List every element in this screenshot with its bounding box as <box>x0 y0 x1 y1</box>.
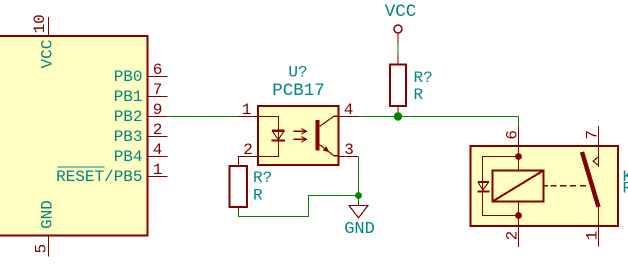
svg-text:VCC: VCC <box>385 2 417 22</box>
VCC power symbol <box>394 25 402 45</box>
relay K? body <box>471 146 619 226</box>
opto pin 1 <box>238 101 259 119</box>
opto LED branch wiring <box>258 117 279 157</box>
svg-text:2: 2 <box>243 141 253 159</box>
IC pin 1 RESET/PB5 <box>56 161 167 186</box>
IC pin 7 PB1 <box>114 81 168 106</box>
svg-text:R?: R? <box>414 69 433 87</box>
svg-text:1: 1 <box>153 161 163 179</box>
IC pin 2 PB3 <box>114 121 168 146</box>
resistor R? (left) top stub <box>238 157 240 166</box>
svg-text:PCB17: PCB17 <box>272 81 325 101</box>
junction GND node <box>355 192 362 199</box>
relay pin7 inner wire <box>598 146 600 167</box>
IC pin 5 GND (bottom) <box>33 200 57 256</box>
relay flyback branch <box>483 157 519 216</box>
opto U? body <box>258 106 339 165</box>
svg-text:6: 6 <box>153 61 163 79</box>
resistor R? (pullup) body <box>390 65 406 107</box>
svg-text:RELAY: RELAY <box>623 180 628 198</box>
svg-text:7: 7 <box>583 130 601 140</box>
IC pin 4 PB4 <box>114 141 168 166</box>
opto LED diode <box>272 131 286 141</box>
wire resistor to GND node <box>239 196 359 217</box>
svg-text:PB2: PB2 <box>114 108 143 126</box>
svg-text:5: 5 <box>33 244 51 254</box>
svg-text:GND: GND <box>344 220 375 239</box>
junction pullup node <box>394 112 402 120</box>
wire VCC to resistor <box>397 45 399 54</box>
relay pin1 inner wire <box>598 207 600 226</box>
opto pin 3 <box>339 141 359 159</box>
relay contact triangle <box>593 157 598 166</box>
relay flyback diode <box>477 182 489 191</box>
opto pin 4 <box>339 101 359 119</box>
svg-text:2: 2 <box>153 121 163 139</box>
IC pin 9 PB2 <box>114 101 168 126</box>
svg-text:6: 6 <box>503 130 521 140</box>
ground symbol <box>349 202 368 218</box>
svg-text:4: 4 <box>344 101 354 119</box>
opto coupling arrows <box>294 129 307 142</box>
svg-text:3: 3 <box>344 141 354 159</box>
IC pin 6 PB0 <box>114 61 168 86</box>
relay coil <box>493 170 544 201</box>
svg-text:1: 1 <box>242 101 252 119</box>
svg-text:U?: U? <box>288 64 307 82</box>
svg-text:R: R <box>414 86 424 104</box>
svg-text:VCC: VCC <box>39 40 57 69</box>
relay junction top <box>515 153 522 160</box>
svg-text:4: 4 <box>153 141 163 159</box>
relay K? pin 1 <box>583 226 601 247</box>
opto pin 2 <box>238 141 259 159</box>
IC body (microcontroller) <box>0 36 148 236</box>
svg-text:10: 10 <box>31 14 49 33</box>
svg-text:2: 2 <box>503 231 521 241</box>
svg-text:7: 7 <box>153 81 163 99</box>
wire corner down to relay <box>518 117 520 127</box>
resistor R? (pullup) bottom stub <box>397 106 399 116</box>
resistor R? (pullup) top stub <box>397 54 399 65</box>
resistor R? (left) bottom stub <box>238 207 240 212</box>
svg-text:R?: R? <box>253 169 272 187</box>
svg-text:R: R <box>253 187 263 205</box>
svg-text:1: 1 <box>583 231 601 241</box>
svg-text:PB3: PB3 <box>114 128 143 146</box>
relay junction bottom <box>515 212 522 219</box>
relay switch blade <box>582 152 599 207</box>
svg-text:GND: GND <box>39 200 57 229</box>
relay coil bottom wire <box>518 201 520 226</box>
relay K? pin 2 <box>503 226 521 247</box>
wire PB2 to opto pin1 <box>168 116 238 118</box>
relay K? pin 6 <box>503 126 521 146</box>
svg-text:PB1: PB1 <box>114 88 143 106</box>
svg-text:9: 9 <box>153 101 163 119</box>
svg-text:RESET/PB5: RESET/PB5 <box>56 168 142 186</box>
opto phototransistor <box>318 116 339 156</box>
wire opto pin3 down to GND node <box>358 157 360 203</box>
relay K? pin 7 <box>583 126 601 146</box>
IC pin 10 VCC (top) <box>31 14 57 68</box>
wire opto pin4 to relay pin6 <box>359 116 519 118</box>
svg-text:PB4: PB4 <box>114 148 143 166</box>
relay coil top wire <box>518 146 520 170</box>
svg-text:PB0: PB0 <box>114 68 143 86</box>
relay actuator dashed line <box>544 185 548 187</box>
resistor R? (left) body <box>230 166 247 207</box>
